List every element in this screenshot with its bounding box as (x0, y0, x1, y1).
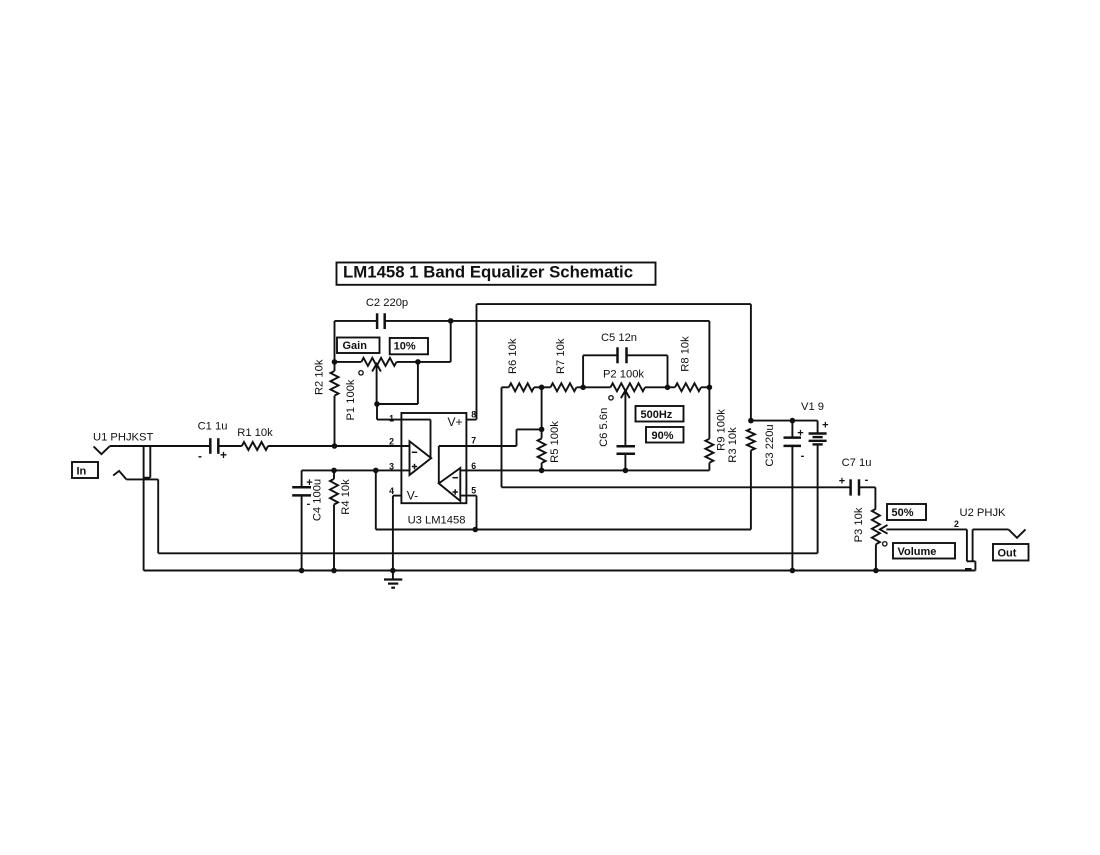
node junction P1 right end (415, 359, 421, 365)
label V+ (448, 415, 463, 429)
label R6 10k (507, 338, 519, 374)
resistor R2 (331, 362, 339, 446)
ground symbol (384, 571, 402, 588)
C3 minus sign (801, 450, 805, 462)
svg-text:+: + (822, 420, 828, 432)
label R3 10k (727, 427, 739, 463)
wire pin 4 stub (393, 495, 402, 497)
pin number 7 (471, 436, 476, 446)
wire battery negative rail (158, 552, 817, 554)
wire U2 sleeve stub to ground rail (974, 561, 976, 570)
svg-text:2: 2 (954, 519, 959, 529)
svg-text:R8 10k: R8 10k (679, 336, 691, 372)
label R2 10k (313, 359, 325, 395)
wire R6 left drop (501, 387, 503, 487)
50% box (887, 504, 926, 520)
node junction P2 right / R8 / C5 (665, 385, 671, 391)
wire C4 to ground rail (301, 495, 303, 570)
wire pin 5 stub (460, 496, 476, 530)
op-amp internal wire pin1 to A output (401, 420, 430, 459)
wire pin 4 to ground (392, 496, 394, 571)
label C5 12n (601, 332, 637, 344)
battery V1 (809, 421, 827, 554)
pin number 3 (389, 461, 394, 471)
wire R6R7 node down to R5 (541, 387, 543, 429)
op-amp A minus input sign (412, 451, 417, 453)
wire V+ right drop (750, 304, 752, 421)
op-amp B plus input sign (453, 489, 458, 494)
label R5 100k (549, 421, 561, 463)
wire P1 wiper to pin 1 (377, 362, 418, 404)
wire pin 8 stub (466, 419, 476, 421)
pin number 2 (389, 436, 394, 446)
connector U1 jack body left line (sleeve) (143, 446, 145, 571)
wire C5 branch right riser (627, 355, 668, 387)
svg-text:-: - (307, 498, 311, 510)
wire pin 3 line (302, 469, 410, 471)
wire V+ top rail (477, 303, 751, 305)
C1 minus sign (198, 449, 202, 463)
wire C2 right to inner box corner (385, 320, 710, 322)
wire bias line (376, 470, 751, 529)
C4 minus sign (307, 498, 311, 510)
op-amp internal wire B output to pin7 (439, 446, 467, 483)
wire C6 to pin6 line (624, 454, 626, 471)
connector U1 jack tip contact (94, 446, 110, 454)
10% box (390, 338, 428, 354)
wire input net jack to C1 (110, 445, 211, 447)
resistor R3 (747, 429, 755, 530)
connector U2 jack tip contact (1009, 529, 1026, 537)
svg-text:C1 1u: C1 1u (198, 421, 228, 433)
connector U2 jack body right line (972, 529, 974, 561)
capacitor C5 (618, 347, 627, 363)
svg-text:P2 100k: P2 100k (603, 369, 644, 381)
op-amp U3 amplifier B triangle (439, 468, 461, 501)
svg-text:C2 220p: C2 220p (366, 297, 408, 309)
wire C7 line (502, 486, 851, 488)
U2 sleeve minus tick (965, 568, 972, 571)
resistor R1 (242, 442, 268, 450)
svg-text:U3 LM1458: U3 LM1458 (408, 514, 466, 526)
connector U1 jack ring contact (113, 471, 126, 480)
wire ground rail (144, 570, 976, 572)
svg-text:4: 4 (389, 486, 394, 496)
svg-text:500Hz: 500Hz (641, 409, 673, 421)
node junction pin5 on bias line (473, 527, 479, 533)
svg-text:+: + (220, 448, 227, 462)
Out box (993, 544, 1029, 561)
pin number 4 (389, 486, 394, 496)
node junction R2 bottom on pin2 wire (332, 443, 338, 449)
svg-text:U1 PHJKST: U1 PHJKST (93, 432, 153, 444)
node junction pin4 on ground rail (390, 568, 396, 574)
svg-text:Gain: Gain (343, 340, 368, 352)
node junction R4 top (331, 468, 337, 474)
wire C4 drop (301, 470, 303, 487)
node junction P3 bottom on ground rail (873, 568, 879, 574)
label C4 100u (311, 479, 323, 521)
connector U2 jack body bottom (967, 560, 976, 562)
svg-text:2: 2 (389, 436, 394, 446)
pin number 1 (389, 413, 394, 423)
potentiometer P1 track (335, 358, 418, 366)
node junction C6 bottom (623, 468, 629, 474)
resistor R7 (542, 383, 584, 391)
svg-text:R9 100k: R9 100k (715, 409, 727, 451)
node junction R5 bottom (539, 468, 545, 474)
V1 plus sign (822, 420, 828, 432)
node junction R6/R7 (539, 385, 545, 391)
P2 position marker circle (609, 396, 613, 400)
svg-text:1: 1 (389, 413, 394, 423)
op-amp B minus input sign (453, 477, 458, 479)
wire C2 left segment (335, 320, 378, 322)
svg-text:In: In (77, 465, 87, 477)
pin number 6 (471, 461, 476, 471)
resistor R9 (705, 387, 713, 470)
wire ring contact to battery rail (126, 479, 158, 553)
pin number 2 of U2 (954, 519, 959, 529)
svg-text:C7 1u: C7 1u (842, 457, 872, 469)
label R1 10k (237, 427, 273, 439)
P3 position marker circle (883, 542, 887, 546)
svg-text:V1 9: V1 9 (801, 401, 824, 413)
svg-text:7: 7 (471, 436, 476, 446)
label C3 220u (764, 424, 776, 466)
label P2 100k (603, 369, 644, 381)
P1 wiper arrow (372, 364, 381, 404)
wire R1 to op-amp pin 2 (268, 445, 409, 447)
connector U1 jack body bottom (144, 477, 151, 479)
pin number 8 (471, 409, 476, 419)
svg-text:R6 10k: R6 10k (507, 338, 519, 374)
potentiometer P2 track (583, 383, 667, 391)
op-amp U3 amplifier A triangle (410, 441, 432, 475)
svg-text:C5 12n: C5 12n (601, 332, 637, 344)
svg-text:50%: 50% (892, 507, 914, 519)
wire C5 branch left riser (583, 355, 617, 387)
node junction V+ rail / R3 (748, 418, 754, 424)
label R8 10k (679, 336, 691, 372)
svg-text:P1 100k: P1 100k (345, 379, 357, 420)
svg-text:90%: 90% (652, 430, 674, 442)
P2 wiper arrow (621, 391, 630, 447)
label U2 PHJK (960, 507, 1007, 519)
svg-text:+: + (839, 476, 845, 488)
resistor R8 (668, 383, 710, 391)
op-amp U3 package box (401, 413, 466, 503)
svg-text:V+: V+ (448, 415, 463, 429)
wire pin 6 line (460, 469, 709, 471)
C1 plus sign (220, 448, 227, 462)
label C1 1u (198, 421, 228, 433)
label P1 100k (345, 379, 357, 420)
svg-text:Out: Out (998, 548, 1017, 560)
connector U1 jack body right line (149, 446, 151, 478)
Gain box (337, 338, 380, 354)
label R7 10k (555, 338, 567, 374)
P3 wiper arrow (880, 525, 967, 534)
wire C1 to R1 (218, 445, 242, 447)
svg-text:R3 10k: R3 10k (727, 427, 739, 463)
svg-text:R1 10k: R1 10k (237, 427, 273, 439)
wire V+ to battery (751, 420, 818, 422)
label C6 5.6n (598, 408, 610, 447)
connector U2 jack body left line (966, 529, 968, 561)
svg-text:R5 100k: R5 100k (549, 421, 561, 463)
C7 minus sign (865, 474, 869, 486)
label C7 1u (842, 457, 872, 469)
90% box (646, 427, 684, 443)
node junction C3 on ground rail (790, 568, 796, 574)
svg-text:R4 10k: R4 10k (340, 479, 352, 515)
svg-text:-: - (198, 449, 202, 463)
node junction C2 wire / P1 riser (448, 318, 454, 324)
node junction C3 top (790, 418, 796, 424)
svg-text:-: - (801, 450, 805, 462)
capacitor C7 (851, 479, 859, 495)
wire V+ riser (476, 304, 478, 420)
C7 plus sign (839, 476, 845, 488)
500Hz box (636, 406, 684, 422)
svg-text:+: + (797, 428, 803, 440)
P1 position marker circle (359, 371, 363, 375)
svg-text:C6 5.6n: C6 5.6n (598, 408, 610, 447)
potentiometer P3 track (872, 509, 880, 571)
label V- (407, 488, 418, 502)
label P3 10k (853, 507, 865, 542)
svg-text:Volume: Volume (898, 546, 937, 558)
svg-text:U2 PHJK: U2 PHJK (960, 507, 1007, 519)
wire U2 tip wire (973, 528, 1009, 530)
op-amp A plus input sign (412, 464, 417, 469)
svg-text:LM1458 1 Band Equalizer Schema: LM1458 1 Band Equalizer Schematic (343, 263, 633, 282)
label U3 LM1458 (408, 514, 466, 526)
label U1 PHJKST (93, 432, 153, 444)
node junction R4 on ground rail (331, 568, 337, 574)
node junction wiper/pin1 (374, 401, 380, 407)
svg-text:R7 10k: R7 10k (555, 338, 567, 374)
node junction P1 left end (332, 359, 338, 365)
Volume box (893, 543, 955, 559)
wire P1 right end riser to C2 wire (418, 321, 451, 362)
node junction pin7 / R5 top (539, 427, 545, 433)
svg-text:5: 5 (471, 486, 476, 496)
svg-text:-: - (865, 474, 869, 486)
resistor R6 (502, 383, 542, 391)
label C2 220p (366, 297, 408, 309)
capacitor C3 (784, 421, 802, 571)
node junction feedback drop on pin3 (373, 468, 379, 474)
C3 plus sign (797, 428, 803, 440)
node junction R8 right / R9 top (707, 385, 713, 391)
title box (337, 263, 656, 285)
label R9 100k (715, 409, 727, 451)
wire inner box right edge (708, 321, 710, 387)
wire pin 7 to R5 top (466, 429, 541, 446)
capacitor C4 (292, 487, 311, 495)
resistor R5 (538, 429, 546, 470)
C4 plus sign (306, 477, 312, 489)
capacitor C2 (377, 313, 385, 329)
label R4 10k (340, 479, 352, 515)
wire C2 net left corner down to P1 (334, 321, 336, 362)
svg-text:P3 10k: P3 10k (853, 507, 865, 542)
svg-text:V-: V- (407, 488, 418, 502)
pin number 5 (471, 486, 476, 496)
svg-text:10%: 10% (394, 340, 416, 352)
wire C7 to P3 (859, 487, 875, 509)
svg-text:C4 100u: C4 100u (311, 479, 323, 521)
svg-text:C3 220u: C3 220u (764, 424, 776, 466)
svg-text:R2 10k: R2 10k (313, 359, 325, 395)
capacitor C1 (210, 438, 218, 454)
capacitor C6 (617, 446, 636, 454)
node junction R7 / C5 branch (580, 385, 586, 391)
label V1 9 (801, 401, 824, 413)
wire pin 1 stub (377, 404, 401, 420)
resistor R4 (330, 470, 338, 570)
node junction C4 on ground rail (299, 568, 305, 574)
In box (72, 462, 98, 478)
